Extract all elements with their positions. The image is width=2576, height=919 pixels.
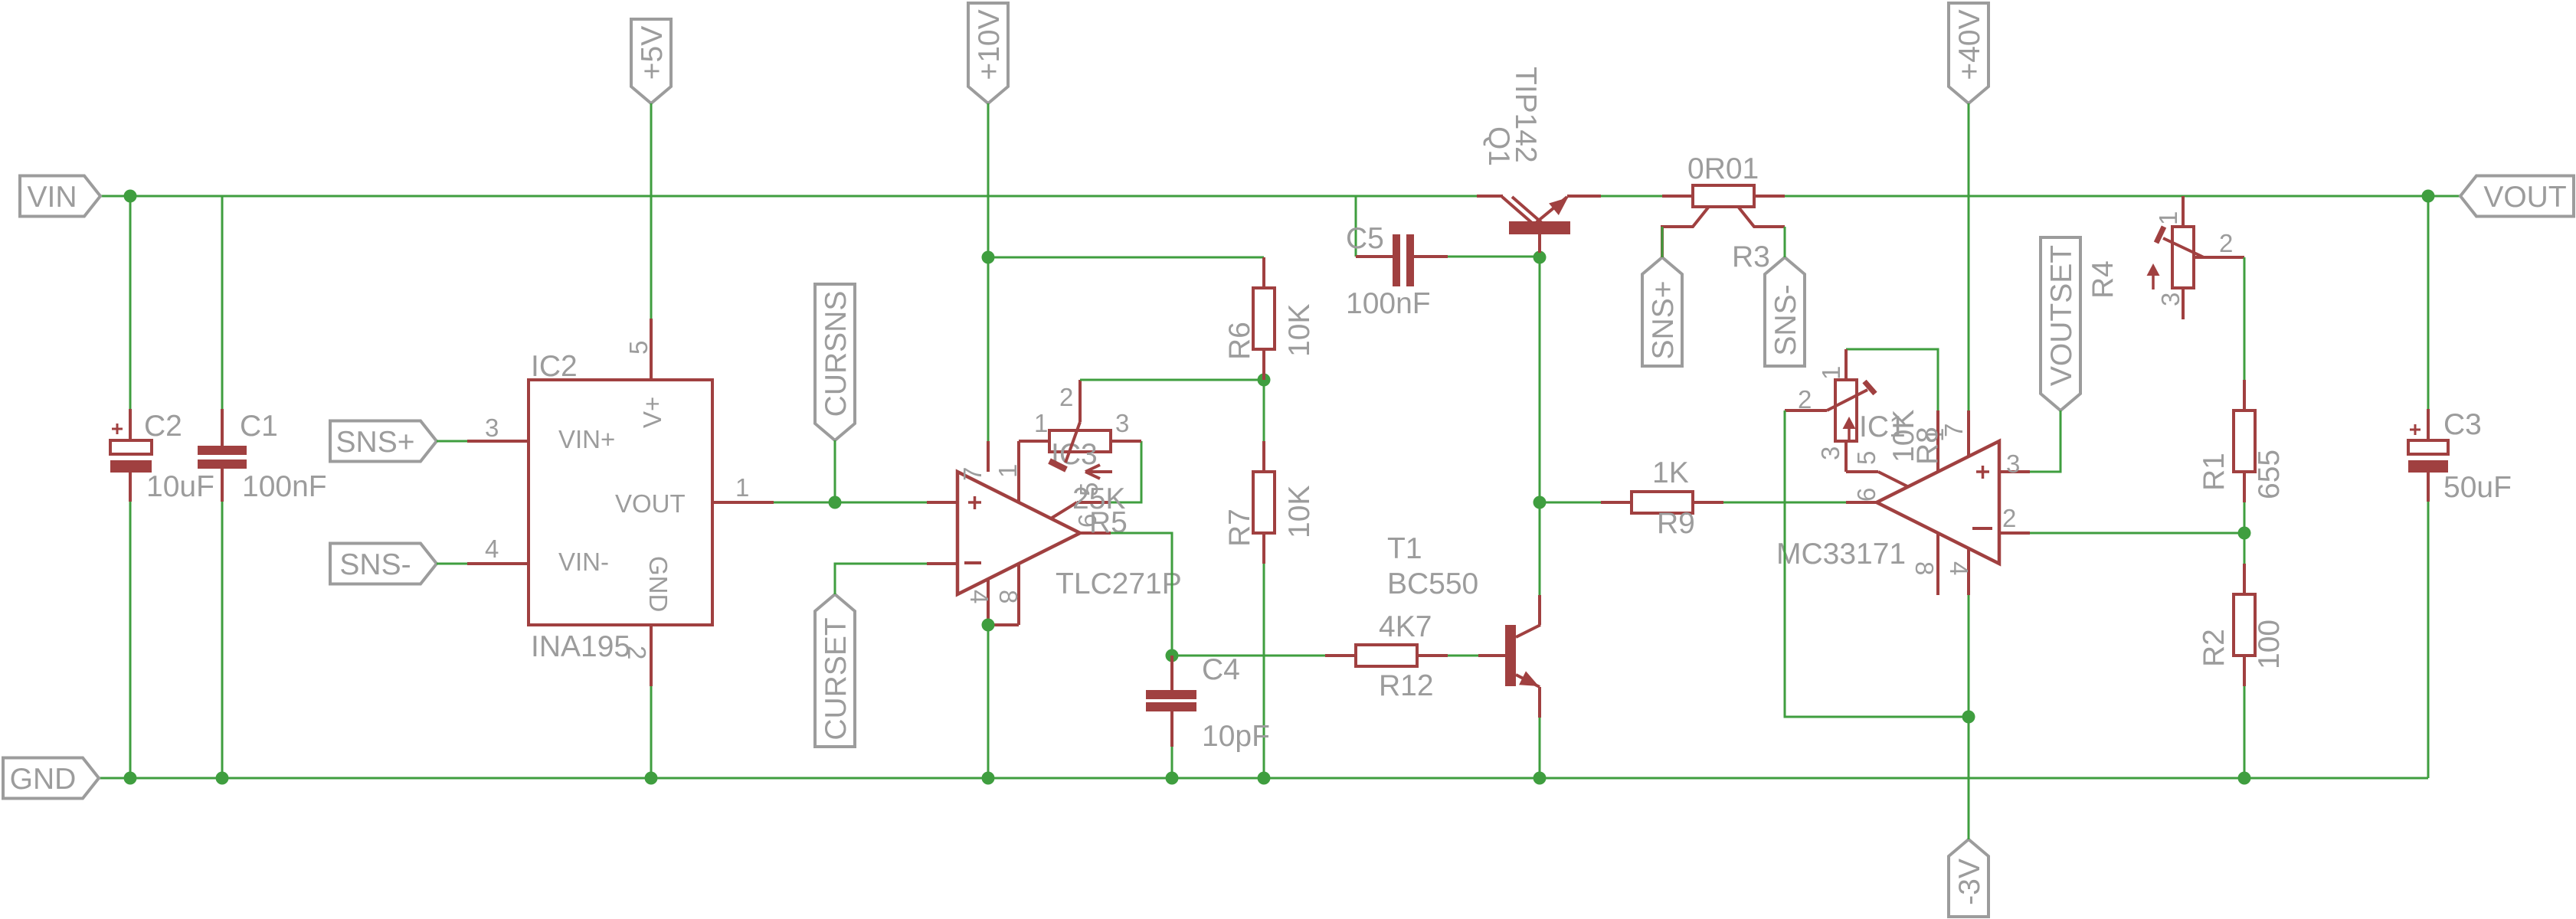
net flag SNS- left: [330, 544, 437, 584]
svg-text:10pF: 10pF: [1202, 720, 1270, 753]
pin 3 + input: [927, 501, 957, 504]
svg-text:100: 100: [2253, 620, 2286, 669]
wire C2 to GND: [129, 502, 132, 778]
wire pin4 to GND: [987, 625, 990, 778]
transistor Q1 TIP142: [1509, 221, 1570, 234]
R3 kelvin right: [1739, 208, 1785, 227]
wire VIN bus: [100, 195, 1477, 198]
op-amp IC2 INA195 box: [529, 380, 712, 625]
wire SNS+ to pin3: [437, 440, 467, 443]
pin 8 bias: [1017, 564, 1020, 625]
wire emitter to R3: [1601, 195, 1662, 198]
capacitor C2: [129, 409, 132, 440]
pin 1 offset: [1017, 441, 1020, 503]
pin 8: [1936, 534, 1939, 595]
junction pin4: [982, 619, 995, 632]
svg-text:2: 2: [623, 646, 651, 659]
wire pin2 to feedback node: [2030, 532, 2244, 535]
svg-text:4K7: 4K7: [1379, 610, 1432, 643]
svg-text:CURSET: CURSET: [820, 617, 853, 740]
svg-text:4: 4: [1945, 561, 1973, 575]
T1 collector wire: [1538, 595, 1541, 625]
svg-text:100nF: 100nF: [242, 470, 327, 503]
pin 4 V-: [1967, 549, 1970, 595]
net flag VIN: [20, 176, 100, 217]
net flag SNS+ right: [1642, 257, 1682, 366]
svg-text:5: 5: [1852, 451, 1880, 465]
wire R4 wiper to R1: [2244, 257, 2246, 380]
supply flag +10V: [968, 3, 1008, 103]
pin 4 V-: [987, 579, 990, 625]
capacitor C4 10pF: [1170, 656, 1173, 690]
svg-text:10uF: 10uF: [146, 470, 214, 503]
net flag GND: [3, 758, 99, 799]
svg-text:2: 2: [1798, 385, 1812, 414]
svg-text:VOUTSET: VOUTSET: [2045, 245, 2078, 386]
wire R8 pin1 net: [1846, 349, 1938, 410]
wire GND bus: [99, 777, 2428, 780]
wire output to C4 node: [1111, 533, 1325, 656]
svg-text:SNS+: SNS+: [336, 426, 415, 459]
svg-text:VOUT: VOUT: [615, 489, 686, 518]
trimmer R5 arrow: [1085, 470, 1112, 473]
svg-text:4: 4: [965, 590, 993, 603]
wire Q1 emitter lead red: [1567, 195, 1601, 198]
supply flag +5V: [631, 19, 671, 103]
supply flag +40V: [1949, 3, 1988, 103]
trimmer R8 pin3 link to op-amp pin5: [1846, 470, 1878, 473]
svg-text:2: 2: [1059, 383, 1073, 411]
trimmer R4: [2182, 196, 2185, 227]
svg-text:1: 1: [1034, 409, 1048, 437]
trimmer R4 wiper: [2163, 238, 2204, 257]
svg-text:V+: V+: [638, 397, 666, 428]
svg-text:R5: R5: [1089, 506, 1128, 539]
svg-text:R7: R7: [1223, 509, 1256, 547]
svg-text:R1: R1: [2198, 453, 2231, 491]
net flag SNS- right: [1765, 257, 1805, 366]
svg-text:+5V: +5V: [636, 26, 669, 80]
junction GND IC3: [982, 772, 995, 785]
trimmer R5 wiper pin2: [1079, 380, 1082, 422]
wire R2 to GND: [2244, 686, 2246, 778]
trimmer R8 pin3: [1844, 441, 1848, 472]
svg-text:2: 2: [2002, 504, 2016, 532]
svg-text:50uF: 50uF: [2443, 471, 2512, 504]
junction CURSNS: [829, 496, 842, 509]
pin 2 - input: [1999, 531, 2030, 535]
svg-text:0R01: 0R01: [1687, 152, 1759, 185]
junction GND C2: [124, 772, 137, 785]
pin 1 VOUT: [712, 501, 774, 504]
wire VIN to C5: [1355, 196, 1357, 257]
svg-text:4: 4: [485, 535, 499, 563]
svg-text:SNS+: SNS+: [1647, 281, 1680, 360]
svg-text:2: 2: [2219, 229, 2233, 257]
svg-text:VOUT: VOUT: [2483, 181, 2566, 214]
svg-text:R3: R3: [1732, 240, 1770, 273]
svg-text:R4: R4: [2087, 260, 2119, 299]
resistor R2 100: [2244, 533, 2246, 564]
pin 4 VIN-: [467, 562, 529, 565]
transistor T1 BC550: [1478, 654, 1505, 657]
capacitor C3 50uF: [2427, 409, 2430, 440]
wire VOUT to op-amp: [774, 502, 927, 504]
svg-text:R9: R9: [1657, 507, 1695, 540]
svg-text:-3V: -3V: [1953, 858, 1986, 905]
wire R7 to GND: [1263, 564, 1265, 778]
svg-text:3: 3: [2156, 293, 2185, 306]
svg-text:C4: C4: [1202, 653, 1240, 686]
pin 6 output: [1080, 531, 1111, 535]
svg-text:VIN-: VIN-: [558, 548, 609, 576]
svg-text:3: 3: [1115, 409, 1129, 437]
svg-text:8: 8: [994, 590, 1023, 603]
trimmer R5 body: [1049, 430, 1111, 452]
wire R8 wiper to -3V net: [1785, 410, 1969, 717]
svg-text:R6: R6: [1223, 322, 1256, 360]
svg-text:MC33171: MC33171: [1776, 538, 1906, 571]
svg-text:7: 7: [958, 467, 987, 481]
trimmer R8 pin1: [1844, 349, 1848, 380]
trimmer R8 arrow: [1848, 424, 1851, 443]
svg-text:R2: R2: [2198, 629, 2231, 667]
svg-text:1K: 1K: [1652, 456, 1689, 489]
supply flag -3V: [1949, 839, 1988, 917]
svg-text:SNS-: SNS-: [1769, 284, 1802, 355]
junction GND C4: [1166, 772, 1179, 785]
pin 3 + input: [1999, 470, 2030, 473]
junction VOUT C3: [2422, 190, 2435, 203]
svg-text:INA195: INA195: [531, 630, 630, 663]
svg-text:TIP142: TIP142: [1509, 67, 1542, 163]
R3 kelvin left: [1662, 208, 1708, 257]
trimmer R8 body: [1835, 380, 1857, 441]
pin 5 offset: [1111, 441, 1141, 502]
junction Q1 base: [1533, 251, 1547, 264]
svg-text:1: 1: [993, 464, 1022, 478]
wire R12 to T1 base: [1448, 655, 1478, 657]
pin 2 GND: [650, 625, 653, 686]
trimmer R4 arrow: [2152, 270, 2155, 289]
net flag VOUTSET: [2041, 237, 2080, 410]
svg-text:GND: GND: [10, 763, 77, 796]
net flag CURSET: [815, 594, 855, 747]
pin 2 - input: [927, 562, 957, 565]
wire VOUT to C3: [2427, 196, 2430, 409]
svg-text:C2: C2: [144, 410, 182, 443]
svg-text:VIN+: VIN+: [558, 425, 615, 453]
svg-text:1: 1: [1817, 366, 1845, 380]
svg-text:100nF: 100nF: [1346, 287, 1431, 320]
resistor R6 10K: [1262, 257, 1265, 288]
pin 7 V+: [1967, 410, 1970, 457]
junction GND R7: [1258, 772, 1271, 785]
pin 3 VIN+: [467, 440, 529, 443]
svg-text:TLC271P: TLC271P: [1056, 567, 1182, 600]
junction GND T1: [1533, 772, 1547, 785]
svg-text:6: 6: [1852, 488, 1880, 502]
wire +5V: [650, 103, 653, 319]
svg-text:GND: GND: [644, 556, 673, 612]
wire pin2 to GND: [650, 686, 653, 778]
wire R1 to feedback: [2244, 502, 2246, 533]
svg-text:5: 5: [624, 341, 653, 355]
pin 1 offset: [1936, 410, 1939, 473]
junction -3V net: [1962, 711, 1975, 724]
svg-text:C1: C1: [240, 410, 278, 443]
op-amp IC3 triangle: [957, 472, 1080, 594]
junction feedback: [2238, 527, 2251, 540]
trimmer R5 pin3: [1111, 440, 1141, 443]
resistor R7 10K: [1263, 380, 1265, 441]
wire R9 to IC1 output: [1723, 502, 1846, 504]
svg-text:10K: 10K: [1283, 486, 1316, 538]
wire CURSET to pin2: [835, 564, 927, 594]
wire R3 to VOUT: [1785, 195, 2460, 198]
op-amp IC1 triangle: [1877, 441, 1999, 564]
svg-text:R12: R12: [1379, 669, 1434, 702]
wire VOUTSET to pin3: [2030, 410, 2060, 472]
wire C1 to GND: [221, 502, 224, 778]
svg-text:C5: C5: [1346, 222, 1384, 255]
wire Q1 base down: [1539, 257, 1541, 502]
wire VIN to C2: [129, 196, 132, 409]
svg-text:1: 1: [2154, 211, 2182, 225]
trimmer R5 pin1: [1019, 440, 1049, 443]
svg-text:1: 1: [735, 473, 749, 502]
svg-text:3: 3: [2006, 450, 2020, 478]
wire C3 to GND: [2427, 502, 2430, 778]
junction T1 collector R9: [1533, 496, 1547, 509]
resistor R3 0R01: [1662, 195, 1693, 198]
wire +40V to IC1 V+: [1968, 103, 1970, 410]
svg-text:3: 3: [485, 414, 499, 442]
pin 6 output: [1846, 501, 1877, 504]
capacitor C1: [221, 409, 224, 446]
svg-text:SNS-: SNS-: [339, 548, 411, 581]
resistor R12 4K7: [1325, 654, 1356, 657]
wire CURSNS: [834, 440, 836, 502]
wire +10V: [987, 103, 990, 257]
svg-text:+40V: +40V: [1953, 9, 1986, 80]
wire +10V to R6: [988, 257, 1264, 259]
svg-text:VIN: VIN: [27, 181, 77, 214]
svg-text:C3: C3: [2443, 408, 2482, 441]
pin 7 V+: [987, 441, 990, 472]
net flag CURSNS: [815, 284, 855, 440]
wire +10V to pin7: [987, 257, 990, 441]
svg-text:BC550: BC550: [1387, 567, 1478, 600]
svg-text:8: 8: [1910, 561, 1939, 575]
wire pin8 to pin4: [988, 623, 1019, 626]
svg-text:R8: R8: [1911, 427, 1944, 465]
svg-text:+10V: +10V: [973, 9, 1006, 80]
svg-text:10K: 10K: [1283, 304, 1316, 357]
wire wiper to divider: [1080, 379, 1264, 381]
junction C4: [1166, 649, 1179, 662]
wire SNS- to pin4: [437, 563, 467, 565]
resistor R1 655: [2243, 380, 2246, 410]
T1 emitter wire: [1538, 687, 1541, 718]
resistor R9 1K: [1540, 502, 1601, 504]
trimmer R8 wiper pin2: [1785, 409, 1827, 412]
svg-text:655: 655: [2253, 450, 2286, 499]
junction +10V: [982, 251, 995, 264]
wire Q1 collector lead red: [1477, 195, 1503, 198]
svg-text:3: 3: [1816, 446, 1844, 460]
junction GND IC2: [645, 772, 658, 785]
junction GND C1: [216, 772, 229, 785]
net flag VOUT: [2460, 176, 2574, 217]
svg-text:IC2: IC2: [531, 350, 578, 383]
junction R6 R7: [1258, 374, 1271, 387]
svg-text:CURSNS: CURSNS: [820, 291, 853, 417]
junction VIN: [124, 190, 137, 203]
pin 5 V+: [650, 319, 653, 380]
net flag SNS+ left: [330, 421, 437, 462]
capacitor C5 100nF: [1356, 255, 1393, 258]
svg-text:T1: T1: [1387, 532, 1422, 565]
wire pin4 to -3V: [1968, 595, 1970, 839]
wire VIN to C1: [221, 196, 224, 409]
junction GND R2: [2238, 772, 2251, 785]
